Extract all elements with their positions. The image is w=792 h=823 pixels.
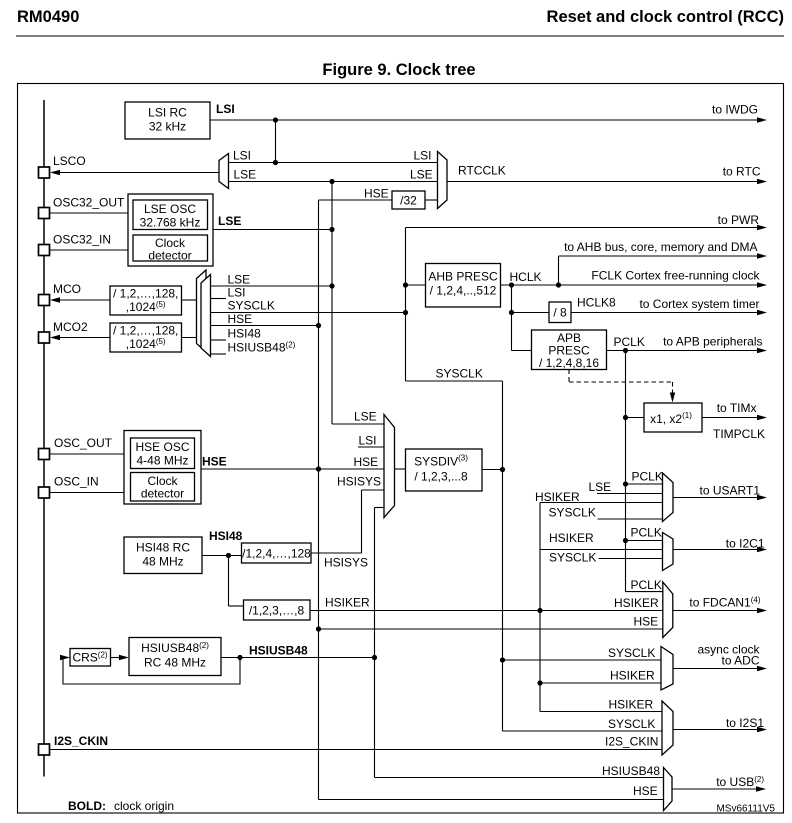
wire HSIUSB48 output: [221, 657, 375, 659]
feedback wire CRS loop bottom: [63, 658, 240, 685]
svg-text:OSC_OUT: OSC_OUT: [54, 436, 113, 450]
oscillator box HSIUSB48 RC 48 MHz: [129, 638, 221, 676]
mux LSCO select: [219, 154, 229, 189]
svg-text:SYSCLK: SYSCLK: [608, 646, 655, 660]
svg-text:Figure 9. Clock tree: Figure 9. Clock tree: [322, 61, 475, 79]
oscillator box HSI48 RC 48 MHz: [124, 537, 202, 574]
svg-text:LSI RC: LSI RC: [148, 106, 187, 120]
svg-text:to TIMx: to TIMx: [717, 401, 757, 415]
stub HSI48 input to MCO mux: [211, 339, 227, 341]
junction HCLK8 branch: [509, 310, 514, 315]
svg-text:HSIKER: HSIKER: [325, 596, 370, 610]
wire OSC32_OUT pin to box: [50, 212, 129, 214]
multiplier box x1, x2: [644, 403, 702, 432]
mux ADC async clock select: [661, 647, 673, 691]
stub SYSCLK input to USART1 mux: [598, 518, 663, 520]
svg-text:LSE: LSE: [234, 168, 257, 182]
wire to USB: [672, 788, 764, 790]
arrow to PWR: [757, 225, 767, 230]
wire LSE into system mux: [332, 423, 384, 425]
wire to PWR: [406, 227, 766, 229]
mux MCO2 select (front): [201, 275, 211, 357]
arrow to USART1: [757, 495, 767, 500]
stub SYSCLK input to I2C1 mux: [599, 558, 663, 560]
divider /32: [392, 191, 425, 209]
svg-text:RTCCLK: RTCCLK: [458, 164, 506, 178]
svg-text:LSI: LSI: [228, 286, 246, 300]
wire HSIKER into USART1 mux: [540, 502, 663, 504]
svg-text:LSI: LSI: [414, 149, 432, 163]
arrow into HSIUSB48 box: [119, 655, 129, 660]
oscillator block LSE OSC outer box: [128, 194, 213, 266]
svg-text:HCLK8: HCLK8: [577, 296, 616, 310]
wire LSI row between LSCO mux and RTC mux: [229, 162, 438, 164]
svg-text:HCLK: HCLK: [510, 270, 542, 284]
svg-text:HSI48: HSI48: [228, 327, 262, 341]
arrow into MCO pin: [50, 297, 60, 302]
arrow to I2S1: [757, 727, 767, 732]
svg-text:LSCO: LSCO: [53, 154, 86, 168]
wire MCO2 divider to pin: [52, 337, 110, 339]
wire SYSCLK vertical (center): [502, 381, 504, 731]
oscillator box LSE OSC 32.768 kHz: [133, 200, 208, 230]
arrow to TIMx: [757, 415, 767, 420]
svg-text:to FDCAN1(4): to FDCAN1(4): [689, 596, 760, 610]
svg-text:LSE: LSE: [228, 273, 251, 287]
divider box AHB PRESC: [426, 264, 501, 308]
svg-text:PCLK: PCLK: [631, 526, 662, 540]
mux USB clock select: [664, 768, 673, 811]
wire SYSCLK into ADC mux: [503, 659, 662, 661]
wire HSE input to MCO mux: [211, 325, 319, 327]
svg-text:HSIKER: HSIKER: [610, 669, 655, 683]
svg-text:HSI48: HSI48: [209, 529, 243, 543]
svg-text:/ 8: / 8: [553, 306, 567, 320]
arrow to AHB bus: [757, 253, 767, 258]
wire HSE into USB mux: [319, 799, 664, 801]
svg-text:PCLK: PCLK: [632, 470, 663, 484]
clock detector box (LSE): [133, 235, 208, 263]
wire HCLK8 to Cortex timer: [571, 312, 765, 314]
svg-text:SYSCLK: SYSCLK: [608, 717, 655, 731]
wire HSI48 output: [202, 555, 242, 557]
svg-text:HSE: HSE: [202, 455, 227, 469]
junction SYSCLK: [500, 467, 505, 472]
svg-text:HSE: HSE: [354, 455, 379, 469]
stub HSIUSB48 input to MCO mux: [211, 353, 227, 355]
junction SYSCLK to ADC: [500, 657, 505, 662]
arrow to Cortex system timer: [757, 310, 767, 315]
svg-text:to ADC: to ADC: [721, 654, 759, 668]
junction LSE output: [329, 227, 334, 232]
junction HSE to FDCAN: [316, 626, 321, 631]
arrow to APB peripherals: [757, 348, 767, 353]
wire LSE OSC output: [213, 229, 332, 231]
wire PCLK vertical: [625, 351, 627, 592]
wire into x1 x2 multiplier: [626, 417, 645, 419]
wire to I2C1: [673, 549, 765, 551]
junction LSE row: [329, 179, 334, 184]
svg-text:4-48 MHz: 4-48 MHz: [136, 454, 188, 468]
arrow to USB: [756, 786, 766, 791]
svg-text:OSC32_OUT: OSC32_OUT: [53, 196, 125, 210]
svg-text:OSC_IN: OSC_IN: [54, 475, 99, 489]
svg-text:HSISYS: HSISYS: [324, 556, 368, 570]
wire SYSCLK riser to PWR: [405, 228, 407, 382]
wire HSIUSB48 vertical: [374, 508, 376, 778]
svg-text:LSE OSC: LSE OSC: [144, 202, 196, 216]
junction PCLK to TIMx: [623, 415, 628, 420]
svg-text:PCLK: PCLK: [614, 335, 645, 349]
dashed wire APB PRESC drop: [568, 370, 570, 383]
wire HSIUSB48 into system mux: [375, 507, 385, 509]
svg-text:RC 48 MHz: RC 48 MHz: [144, 656, 206, 670]
wire HSI48 drop to HSIKER divider: [228, 556, 230, 607]
wire LSE row between LSCO mux and RTC mux: [229, 181, 438, 183]
wire SYSCLK top run: [406, 380, 503, 382]
wire LSI drop: [275, 120, 277, 163]
svg-text:to PWR: to PWR: [718, 213, 760, 227]
svg-text:HSI48 RC: HSI48 RC: [136, 541, 190, 555]
trimming box CRS: [70, 649, 111, 667]
wire HCLK / FCLK: [501, 284, 766, 286]
junction LSI row: [273, 160, 278, 165]
svg-text:to IWDG: to IWDG: [712, 103, 758, 117]
wire SYSDIV output: [482, 469, 503, 471]
junction LSI branch: [273, 117, 278, 122]
wire to USART1: [673, 497, 765, 499]
svg-text:32 kHz: 32 kHz: [149, 120, 186, 134]
svg-text:to I2S1: to I2S1: [726, 716, 764, 730]
pin OSC32_OUT: [39, 208, 50, 219]
svg-text:HSIKER: HSIKER: [614, 596, 659, 610]
stub LSE input to USART1 mux: [597, 493, 663, 495]
wire into AHB PRESC: [406, 284, 426, 286]
mux I2S1 clock select: [662, 701, 673, 755]
divider box MCO prescaler: [110, 286, 182, 315]
wire SYSCLK into I2S1 mux: [503, 730, 663, 732]
dashed wire drop into multiplier: [672, 382, 674, 396]
svg-text:FCLK Cortex free-running clock: FCLK Cortex free-running clock: [591, 269, 760, 283]
svg-text:HSIKER: HSIKER: [609, 698, 654, 712]
junction HSIUSB48 vertical: [372, 655, 377, 660]
svg-text:SYSCLK: SYSCLK: [436, 367, 483, 381]
wire async clock to ADC: [673, 668, 765, 670]
wire PCLK into I2C1 mux: [626, 540, 663, 542]
svg-text:LSE: LSE: [410, 168, 433, 182]
wire PCLK to APB peripherals: [607, 350, 766, 352]
wire SYSCLK input to MCO mux: [211, 312, 406, 314]
wire HSISYS divider output: [311, 552, 362, 554]
divider box SYSDIV: [406, 449, 483, 491]
wire HSIKER into I2S1 mux: [540, 711, 662, 713]
pin I2S_CKIN: [39, 744, 50, 755]
device boundary line: [43, 100, 45, 777]
svg-text:MCO: MCO: [53, 282, 81, 296]
wire PCLK into USART1 mux: [626, 483, 663, 485]
wire HSE tap to /32: [319, 199, 393, 201]
wire RTCCLK to RTC: [447, 181, 765, 183]
svg-text:LSI: LSI: [233, 149, 251, 163]
arrow to FDCAN1: [757, 608, 767, 613]
svg-text:/ 1,2,…,128,: / 1,2,…,128,: [113, 324, 178, 338]
pin OSC_IN: [39, 487, 50, 498]
pin OSC32_IN: [39, 245, 50, 256]
pin MCO: [39, 295, 50, 306]
divider box HSISYS /1,2,4...128: [242, 543, 312, 563]
dashed wire run to TIMx multiplier: [569, 381, 673, 383]
wire riser to AHB bus: [558, 256, 560, 285]
wire /32 to RTC mux: [425, 199, 438, 201]
svg-text:BOLD:: BOLD:: [68, 799, 106, 813]
wire HSE into FDCAN1 mux: [319, 628, 663, 630]
svg-text:HSIUSB48(2): HSIUSB48(2): [141, 641, 209, 655]
junction HSE at MCO: [316, 323, 321, 328]
junction SYSCLK to AHB PRESC: [403, 282, 408, 287]
svg-text:RM0490: RM0490: [17, 8, 79, 26]
oscillator block HSE OSC outer box: [124, 431, 201, 505]
wire HSISYS into system mux: [362, 489, 385, 491]
svg-text:/32: /32: [400, 194, 417, 208]
wire LSE input to MCO mux: [211, 285, 333, 287]
junction SYSCLK to MCO mux: [403, 310, 408, 315]
svg-text:SYSCLK: SYSCLK: [228, 299, 275, 313]
wire PCLK into FDCAN1 mux: [626, 591, 663, 593]
svg-text:to RTC: to RTC: [723, 165, 761, 179]
pin OSC_OUT: [39, 449, 50, 460]
svg-text:to Cortex system timer: to Cortex system timer: [639, 297, 759, 311]
arrow to ADC: [757, 666, 767, 671]
svg-text:/ 1,2,4,8,16: / 1,2,4,8,16: [539, 356, 599, 370]
wire I2S_CKIN into I2S1 mux: [50, 749, 663, 751]
junction HSI48 branch: [226, 553, 231, 558]
svg-text:/ 1,2,…,128,: / 1,2,…,128,: [113, 287, 178, 301]
mux I2C1 clock select: [663, 533, 674, 571]
svg-text:to I2C1: to I2C1: [726, 537, 765, 551]
mux RTC clock select: [438, 152, 448, 209]
svg-text:HSIKER: HSIKER: [549, 531, 594, 545]
wire to FDCAN1: [673, 610, 765, 612]
arrow into LSCO pin: [50, 170, 60, 175]
svg-text:I2S_CKIN: I2S_CKIN: [605, 735, 658, 749]
wire TIMPCLK to TIMx: [702, 417, 765, 419]
svg-text:detector: detector: [141, 487, 184, 501]
arrow to IWDG: [757, 117, 767, 122]
svg-text:I2S_CKIN: I2S_CKIN: [54, 734, 108, 748]
wire HSISYS vertical: [361, 490, 363, 553]
stub LSI input to system mux: [358, 446, 384, 448]
svg-text:PCLK: PCLK: [631, 578, 662, 592]
svg-text:/1,2,4,…,128: /1,2,4,…,128: [242, 547, 311, 561]
wire HSIKER into I2C1 mux: [540, 549, 663, 551]
junction HCLK down branch: [509, 282, 514, 287]
divider box MCO2 prescaler: [110, 323, 182, 352]
wire LSE vertical: [331, 182, 333, 425]
wire OSC_IN pin to box: [50, 492, 125, 494]
arrow into CRS: [60, 655, 70, 660]
divider box APB PRESC: [532, 330, 607, 370]
arrow to I2C1: [757, 547, 767, 552]
svg-text:LSI: LSI: [216, 102, 235, 116]
svg-text:SYSCLK: SYSCLK: [549, 551, 596, 565]
junction HSIUSB48 feedback: [237, 655, 242, 660]
wire HSE output to system mux: [201, 468, 384, 470]
junction HSIKER branch: [537, 608, 542, 613]
wire OSC32_IN pin to box: [50, 249, 129, 251]
junction PCLK to I2C1: [623, 538, 628, 543]
junction HSE output: [316, 466, 321, 471]
wire system mux output to SYSDIV: [395, 468, 406, 470]
svg-text:48 MHz: 48 MHz: [142, 555, 183, 569]
svg-text:to APB peripherals: to APB peripherals: [663, 335, 762, 349]
svg-text:detector: detector: [148, 249, 191, 263]
junction HCLK up branch: [556, 282, 561, 287]
junction LSE at MCO: [329, 283, 334, 288]
svg-text:MSv66111V5: MSv66111V5: [716, 804, 775, 815]
junction HSIKER to ADC: [537, 680, 542, 685]
stub LSI input to MCO mux: [211, 298, 227, 300]
svg-text:LSE: LSE: [589, 480, 612, 494]
svg-text:HSE: HSE: [634, 615, 659, 629]
mux USART1 clock select: [663, 473, 674, 522]
svg-text:SYSCLK: SYSCLK: [549, 506, 596, 520]
wire OSC_OUT pin to box: [50, 453, 125, 455]
svg-text:32.768 kHz: 32.768 kHz: [140, 216, 201, 230]
svg-text:HSIUSB48: HSIUSB48: [249, 644, 308, 658]
arrow to RTC: [757, 179, 767, 184]
arrow FCLK: [757, 282, 767, 287]
junction PCLK branch: [623, 348, 628, 353]
oscillator box HSE OSC 4-48 MHz: [131, 438, 195, 469]
header rule: [16, 35, 784, 37]
divider box HSIKER /1,2,3...8: [244, 600, 311, 620]
wire MCO mux output: [182, 299, 197, 301]
wire MCO2 mux output: [182, 337, 202, 339]
wire LSCO output: [52, 172, 219, 174]
svg-text:MCO2: MCO2: [53, 320, 88, 334]
junction PCLK to USART1: [623, 481, 628, 486]
svg-text:LSE: LSE: [354, 410, 377, 424]
wire LSI to IWDG: [210, 119, 765, 121]
svg-text:OSC32_IN: OSC32_IN: [53, 233, 111, 247]
wire MCO divider to pin: [52, 299, 110, 301]
wire HSIUSB48 into USB mux: [375, 777, 664, 779]
svg-text:clock origin: clock origin: [114, 799, 174, 813]
mux FDCAN1 clock select: [663, 582, 673, 638]
svg-text:to AHB bus, core, memory and D: to AHB bus, core, memory and DMA: [564, 240, 757, 254]
pin MCO2: [39, 332, 50, 343]
wire HSIKER row to FDCAN mux: [310, 610, 663, 612]
wire HSIKER into ADC mux: [540, 682, 661, 684]
svg-text:AHB PRESC: AHB PRESC: [428, 270, 498, 284]
pin LSCO: [39, 167, 50, 178]
svg-text:Reset and clock control (RCC): Reset and clock control (RCC): [547, 8, 784, 26]
svg-text:HSE: HSE: [633, 784, 658, 798]
svg-text:TIMPCLK: TIMPCLK: [713, 427, 765, 441]
svg-text:LSE: LSE: [218, 214, 241, 228]
svg-text:HSE: HSE: [364, 187, 389, 201]
arrow into MCO2 pin: [50, 335, 60, 340]
svg-text:HSISYS: HSISYS: [337, 475, 381, 489]
svg-text:/ 1,2,4,..,512: / 1,2,4,..,512: [430, 284, 497, 298]
svg-text:/ 1,2,3,...8: / 1,2,3,...8: [414, 470, 468, 484]
oscillator box LSI RC 32 kHz: [125, 102, 210, 139]
wire HSIKER vertical: [539, 503, 541, 712]
wire HSE vertical: [318, 200, 320, 800]
wire to I2S1: [673, 729, 765, 731]
svg-text:HSIUSB48: HSIUSB48: [602, 764, 660, 778]
wire into APB PRESC: [512, 350, 532, 352]
svg-text:HSE OSC: HSE OSC: [135, 440, 189, 454]
divider /8: [549, 302, 571, 323]
svg-text:/1,2,3,…,8: /1,2,3,…,8: [249, 604, 305, 618]
svg-text:HSIKER: HSIKER: [535, 490, 580, 504]
wire HCLK vertical: [511, 285, 513, 351]
mux MCO select (back): [197, 270, 207, 352]
wire CRS to HSIUSB48: [111, 657, 123, 659]
clock detector box (HSE): [131, 473, 195, 502]
svg-text:LSI: LSI: [359, 434, 377, 448]
svg-text:HSE: HSE: [228, 312, 253, 326]
wire into HSIKER divider: [229, 605, 244, 607]
svg-text:to USART1: to USART1: [700, 484, 761, 498]
svg-text:HSIUSB48(2): HSIUSB48(2): [228, 341, 296, 355]
wire into /8: [512, 312, 550, 314]
arrow into multiplier: [670, 393, 675, 403]
wire to AHB bus: [559, 255, 766, 257]
mux system clock select: [384, 415, 395, 518]
